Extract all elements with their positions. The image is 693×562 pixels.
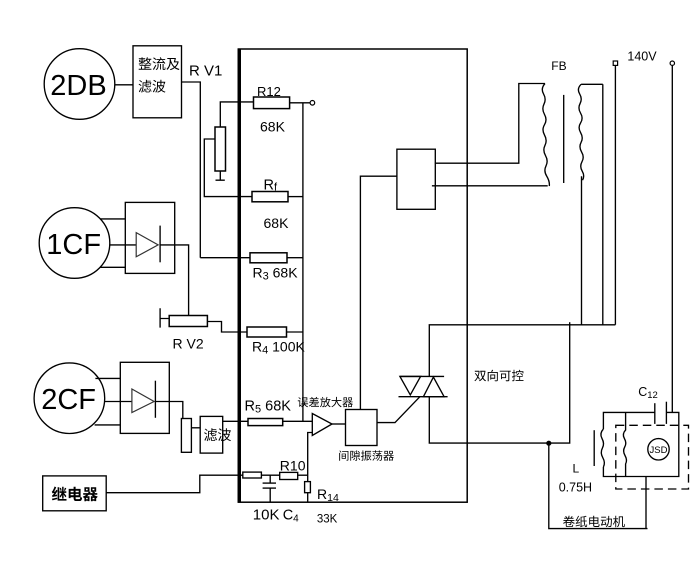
relay box 继电器	[43, 476, 106, 511]
wire junction down to motor bottom rail	[549, 443, 648, 528]
filter box 滤波	[200, 416, 231, 453]
wire phase block to FB primary bottom	[432, 185, 548, 187]
terminal 140V left	[613, 61, 617, 65]
R V2 left terminal bar	[160, 308, 169, 327]
svg-text:33K: 33K	[317, 514, 338, 526]
label 卷纸电动机	[563, 516, 625, 528]
svg-text:R12: R12	[257, 84, 281, 99]
tape sensor block 1CF	[39, 208, 110, 279]
wire FB secondary top to rail	[602, 84, 604, 324]
svg-text:R14: R14	[317, 486, 339, 504]
junction node	[546, 441, 551, 446]
svg-text:FB: FB	[551, 59, 566, 73]
motor JSD circle	[648, 439, 669, 460]
diode inside 2CF box	[132, 381, 156, 418]
wire 2DB to rectifier box	[115, 84, 133, 86]
wire R3 to bus	[287, 257, 303, 259]
wire series resistor to filter box	[191, 427, 200, 429]
svg-text:Rf: Rf	[264, 178, 278, 194]
svg-text:R V1: R V1	[189, 63, 222, 80]
wire R4 to bus	[287, 331, 303, 333]
power rail wire	[570, 324, 616, 326]
svg-text:68K: 68K	[260, 119, 286, 135]
label 间隙振荡器	[339, 450, 394, 460]
main enclosure thick left edge	[238, 49, 241, 502]
wire 140V right terminal down	[671, 65, 673, 412]
svg-text:R V2: R V2	[173, 335, 204, 351]
svg-text:10K: 10K	[253, 506, 280, 523]
svg-text:L: L	[573, 462, 580, 476]
svg-text:R4 100K: R4 100K	[252, 338, 305, 356]
svg-text:R3 68K: R3 68K	[253, 264, 299, 282]
wire R V1 bottom terminal	[216, 171, 225, 180]
wire 10K to R10	[261, 474, 279, 476]
label 误差放大器	[298, 397, 353, 407]
2CF rectifier box	[120, 362, 169, 433]
output terminal circle	[310, 101, 315, 106]
resistor R3	[250, 253, 287, 263]
wire 1CF output to R V2 wiper	[160, 245, 189, 316]
wires 2CF to box	[95, 378, 132, 425]
inductor L winding (left edge)	[601, 429, 604, 467]
svg-text:140V: 140V	[627, 50, 657, 64]
svg-text:C4: C4	[283, 507, 299, 524]
wire 2CF output to series resistor	[155, 402, 182, 419]
resistor Rf	[252, 192, 288, 202]
svg-text:C12: C12	[638, 385, 658, 401]
wire rectifier output to R3 row	[182, 82, 201, 258]
wires 1CF to box	[100, 219, 136, 267]
wire R V2 right to R4 row	[207, 322, 247, 333]
motor frame box with L winding on left edge	[603, 412, 678, 476]
motor aux winding	[623, 412, 626, 476]
wire R5 to op-amp	[283, 420, 313, 422]
terminal 140V right	[670, 61, 674, 65]
series resistor (vertical)	[181, 419, 191, 453]
tape sensor block 2CF	[34, 363, 105, 434]
svg-text:1CF: 1CF	[46, 229, 101, 261]
transformer FB core	[563, 95, 565, 183]
resistor R5	[248, 419, 283, 426]
svg-text:R5 68K: R5 68K	[245, 399, 292, 416]
triac module box 双向可控	[429, 322, 569, 443]
resistor R4	[247, 327, 287, 337]
feedback bus wire	[302, 103, 304, 422]
wire R14 to box bottom	[307, 493, 309, 503]
bottom divider wire from relay row	[238, 474, 243, 476]
wire phase block to FB primary top	[435, 84, 545, 164]
svg-text:2DB: 2DB	[50, 70, 106, 102]
triac Q1	[399, 376, 448, 396]
wire filter box to R5	[223, 420, 248, 422]
wire FB secondary bottom to rail	[581, 176, 583, 325]
gap oscillator box 间隙振荡器	[346, 410, 378, 446]
diode inside 1CF box	[136, 226, 160, 263]
resistor R14 (vertical)	[305, 482, 311, 493]
svg-text:2CF: 2CF	[41, 384, 96, 416]
wire op-amp output to oscillator	[332, 423, 346, 425]
motor unit dashed enclosure	[616, 425, 689, 489]
wire 140V left terminal down	[614, 65, 616, 324]
main enclosure box	[238, 49, 467, 502]
phase comparator block	[397, 149, 435, 209]
transformer FB primary winding	[542, 84, 549, 187]
wire Rf to bus	[288, 196, 303, 198]
svg-text:JSD: JSD	[650, 445, 668, 456]
resistor R10	[280, 472, 298, 479]
resistor 10K	[243, 472, 262, 478]
op-amp U1 error amplifier	[312, 414, 332, 436]
wire op-amp inverting input	[308, 433, 313, 482]
wire relay to divider row	[106, 475, 238, 493]
wire R V1 top to R12 row	[220, 102, 253, 127]
inductor L core bar	[593, 430, 595, 466]
wire oscillator to triac gate	[377, 397, 420, 423]
svg-text:68K: 68K	[264, 215, 290, 231]
potentiometer R V1 body	[215, 127, 226, 171]
1CF rectifier box	[125, 202, 174, 273]
wire motor bottom lead	[645, 477, 647, 529]
rectifier-filter box 整流及滤波	[133, 46, 182, 118]
svg-text:0.75H: 0.75H	[559, 480, 592, 494]
potentiometer R V2 body	[169, 316, 207, 327]
svg-text:R10: R10	[280, 457, 306, 473]
resistor R12	[254, 97, 290, 109]
wire R10 to feedback node	[298, 474, 308, 476]
wire oscillator top to phase block	[360, 176, 397, 409]
wire R12 to output terminal	[290, 102, 310, 104]
wire R3 row left	[200, 257, 250, 259]
capacitor C12 plates	[655, 402, 667, 424]
wire R V1 wiper to Rf row	[204, 139, 252, 197]
generator block 2DB	[44, 49, 115, 120]
capacitor C4	[263, 475, 276, 502]
transformer FB secondary winding	[578, 84, 602, 180]
